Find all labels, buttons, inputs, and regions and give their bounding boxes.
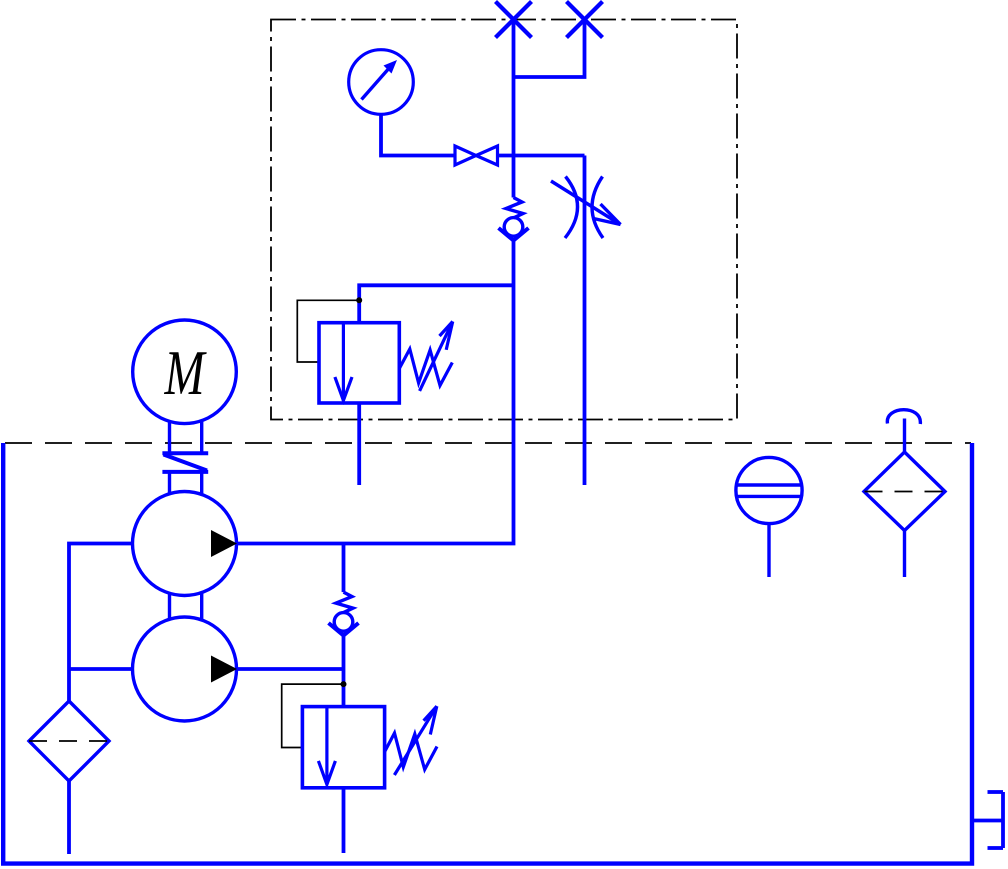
wire: check valve 2 to relief valve 2 (342, 636, 346, 707)
tank top boundary (dashed line) (5, 442, 971, 444)
pump N2 (133, 617, 238, 721)
coupling pump-pump (170, 593, 202, 619)
node: pilot junction 2 (341, 681, 347, 687)
manifold boundary (dash-dot box) (271, 20, 737, 420)
tank wall fitting (right) (972, 792, 1003, 848)
wire: valve to throttle branch (498, 154, 585, 158)
relief valve KP1 (319, 322, 453, 404)
plug X2 (567, 2, 603, 38)
pressure gauge MN1 (349, 50, 414, 115)
plug X1 (496, 2, 532, 38)
throttle valve DR1 (551, 177, 621, 239)
wire: X2 drop to main line (514, 20, 585, 78)
pump N1 (133, 492, 238, 596)
wire: relief valve 1 drain (357, 403, 361, 485)
pilot control line 1 (thin) (297, 300, 359, 362)
wire: pump2 outlet (237, 667, 344, 671)
coupling motor-pump (162, 421, 208, 494)
wire: relief valve 2 drain (342, 788, 346, 853)
node: pilot junction 1 (356, 297, 362, 303)
wire: throttle branch drop (583, 156, 587, 486)
relief valve KP2 (302, 706, 437, 788)
tank outline (3, 443, 972, 864)
wire: suction lines (69, 544, 133, 702)
wire: filter drain (67, 781, 71, 854)
wire: relief valve 1 pilot tap (359, 285, 513, 322)
wire: gauge stem (381, 114, 455, 155)
suction filter F1 (29, 701, 109, 781)
pilot control line 2 (thin) (282, 684, 344, 747)
electric motor M1 (133, 320, 237, 424)
check valve KO2 (329, 592, 359, 635)
shutoff valve VN1 (455, 146, 498, 165)
wire: main pressure line (X1 down to pump1 outlet) (512, 20, 516, 198)
svg-text:M: M (164, 338, 207, 408)
wire: check valve 2 branch (342, 544, 346, 593)
level gauge (736, 457, 802, 577)
breather / air filter (864, 410, 945, 577)
check valve KO1 (499, 198, 529, 241)
